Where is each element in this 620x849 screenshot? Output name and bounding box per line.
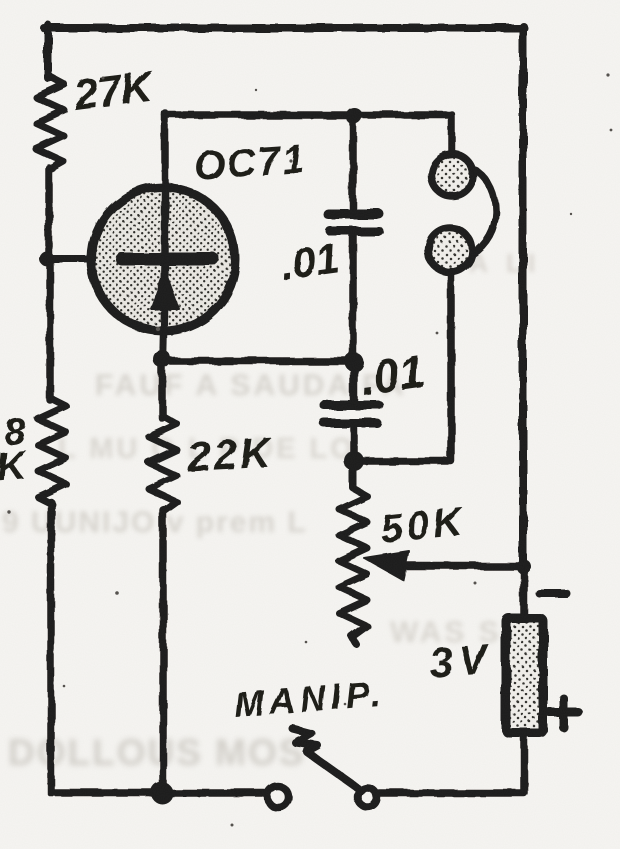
battery BT1 minus terminal mark bbox=[539, 589, 566, 597]
wire: emitter rail (Q1 to C1/C2 node) bbox=[162, 357, 354, 365]
resistor R3 22K bbox=[149, 416, 177, 512]
capacitor C1 bottom lead bbox=[349, 236, 357, 360]
wire: left rail (base node to 18K) bbox=[46, 259, 54, 400]
battery BT1 plus terminal mark bbox=[549, 698, 578, 727]
transistor Q1 emitter lead with PNP arrow bbox=[163, 266, 165, 358]
junction: wiper node on right rail bbox=[517, 560, 532, 575]
battery BT1 3V body bbox=[506, 618, 543, 733]
wire: right rail (wiper node to battery minus) bbox=[520, 567, 528, 615]
junction: emitter node below Q1 bbox=[153, 350, 171, 368]
wire: base wire (left rail to Q1 base bar) bbox=[47, 256, 125, 263]
capacitor C2 .01 top lead bbox=[350, 364, 358, 400]
capacitor C1 .01 plates bbox=[328, 209, 379, 219]
earphones LS1 headband arc bbox=[472, 170, 496, 254]
capacitor C1 .01 top lead bbox=[349, 118, 357, 208]
switch S1 lever with flick bbox=[293, 729, 359, 789]
switch S1 left contact circle bbox=[268, 787, 289, 808]
switch S1 right contact circle bbox=[358, 788, 377, 807]
wire: battery plus to bottom rail bbox=[379, 735, 524, 793]
wire: top rail bbox=[44, 24, 524, 32]
wire: collector lead up from Q1 bbox=[161, 113, 169, 252]
transistor Q1 OC71 body circle bbox=[91, 187, 235, 331]
earphones LS1 top cup bbox=[431, 154, 473, 196]
resistor R2 18K (label partially cropped: 8 K) bbox=[38, 399, 66, 504]
capacitor C2 .01 plates bbox=[324, 401, 379, 410]
wire: left rail lower (18K to bottom rail) bbox=[51, 502, 264, 793]
junction: bottom rail at 22K bbox=[151, 782, 173, 804]
junction: node C2 / earphone return / 50K top bbox=[344, 451, 364, 471]
wire: earphone return down to C2 node bbox=[360, 271, 451, 461]
junction: node between C1 and C2 bbox=[345, 353, 364, 372]
wire: left rail (27K to base node) bbox=[45, 168, 53, 259]
potentiometer R4 50K body bbox=[339, 464, 367, 644]
wire: emitter drop to 22K bbox=[158, 361, 166, 418]
junction: collector node at C1 bbox=[346, 108, 363, 125]
wire: 22K to bottom rail bbox=[159, 510, 167, 793]
resistor R1 27K bbox=[36, 76, 64, 170]
wire: collector rail (to earphones corner) bbox=[165, 115, 452, 155]
wire: left rail upper (top to 27K) bbox=[44, 25, 52, 78]
wire: right rail (top corner to wiper node) bbox=[519, 26, 527, 567]
capacitor C2 bottom lead bbox=[350, 428, 358, 460]
potentiometer R4 wiper arrow bbox=[404, 562, 524, 570]
transistor Q1 base bar bbox=[122, 253, 213, 266]
junction: base node on left rail bbox=[40, 252, 55, 267]
earphones LS1 bottom cup bbox=[428, 228, 472, 272]
